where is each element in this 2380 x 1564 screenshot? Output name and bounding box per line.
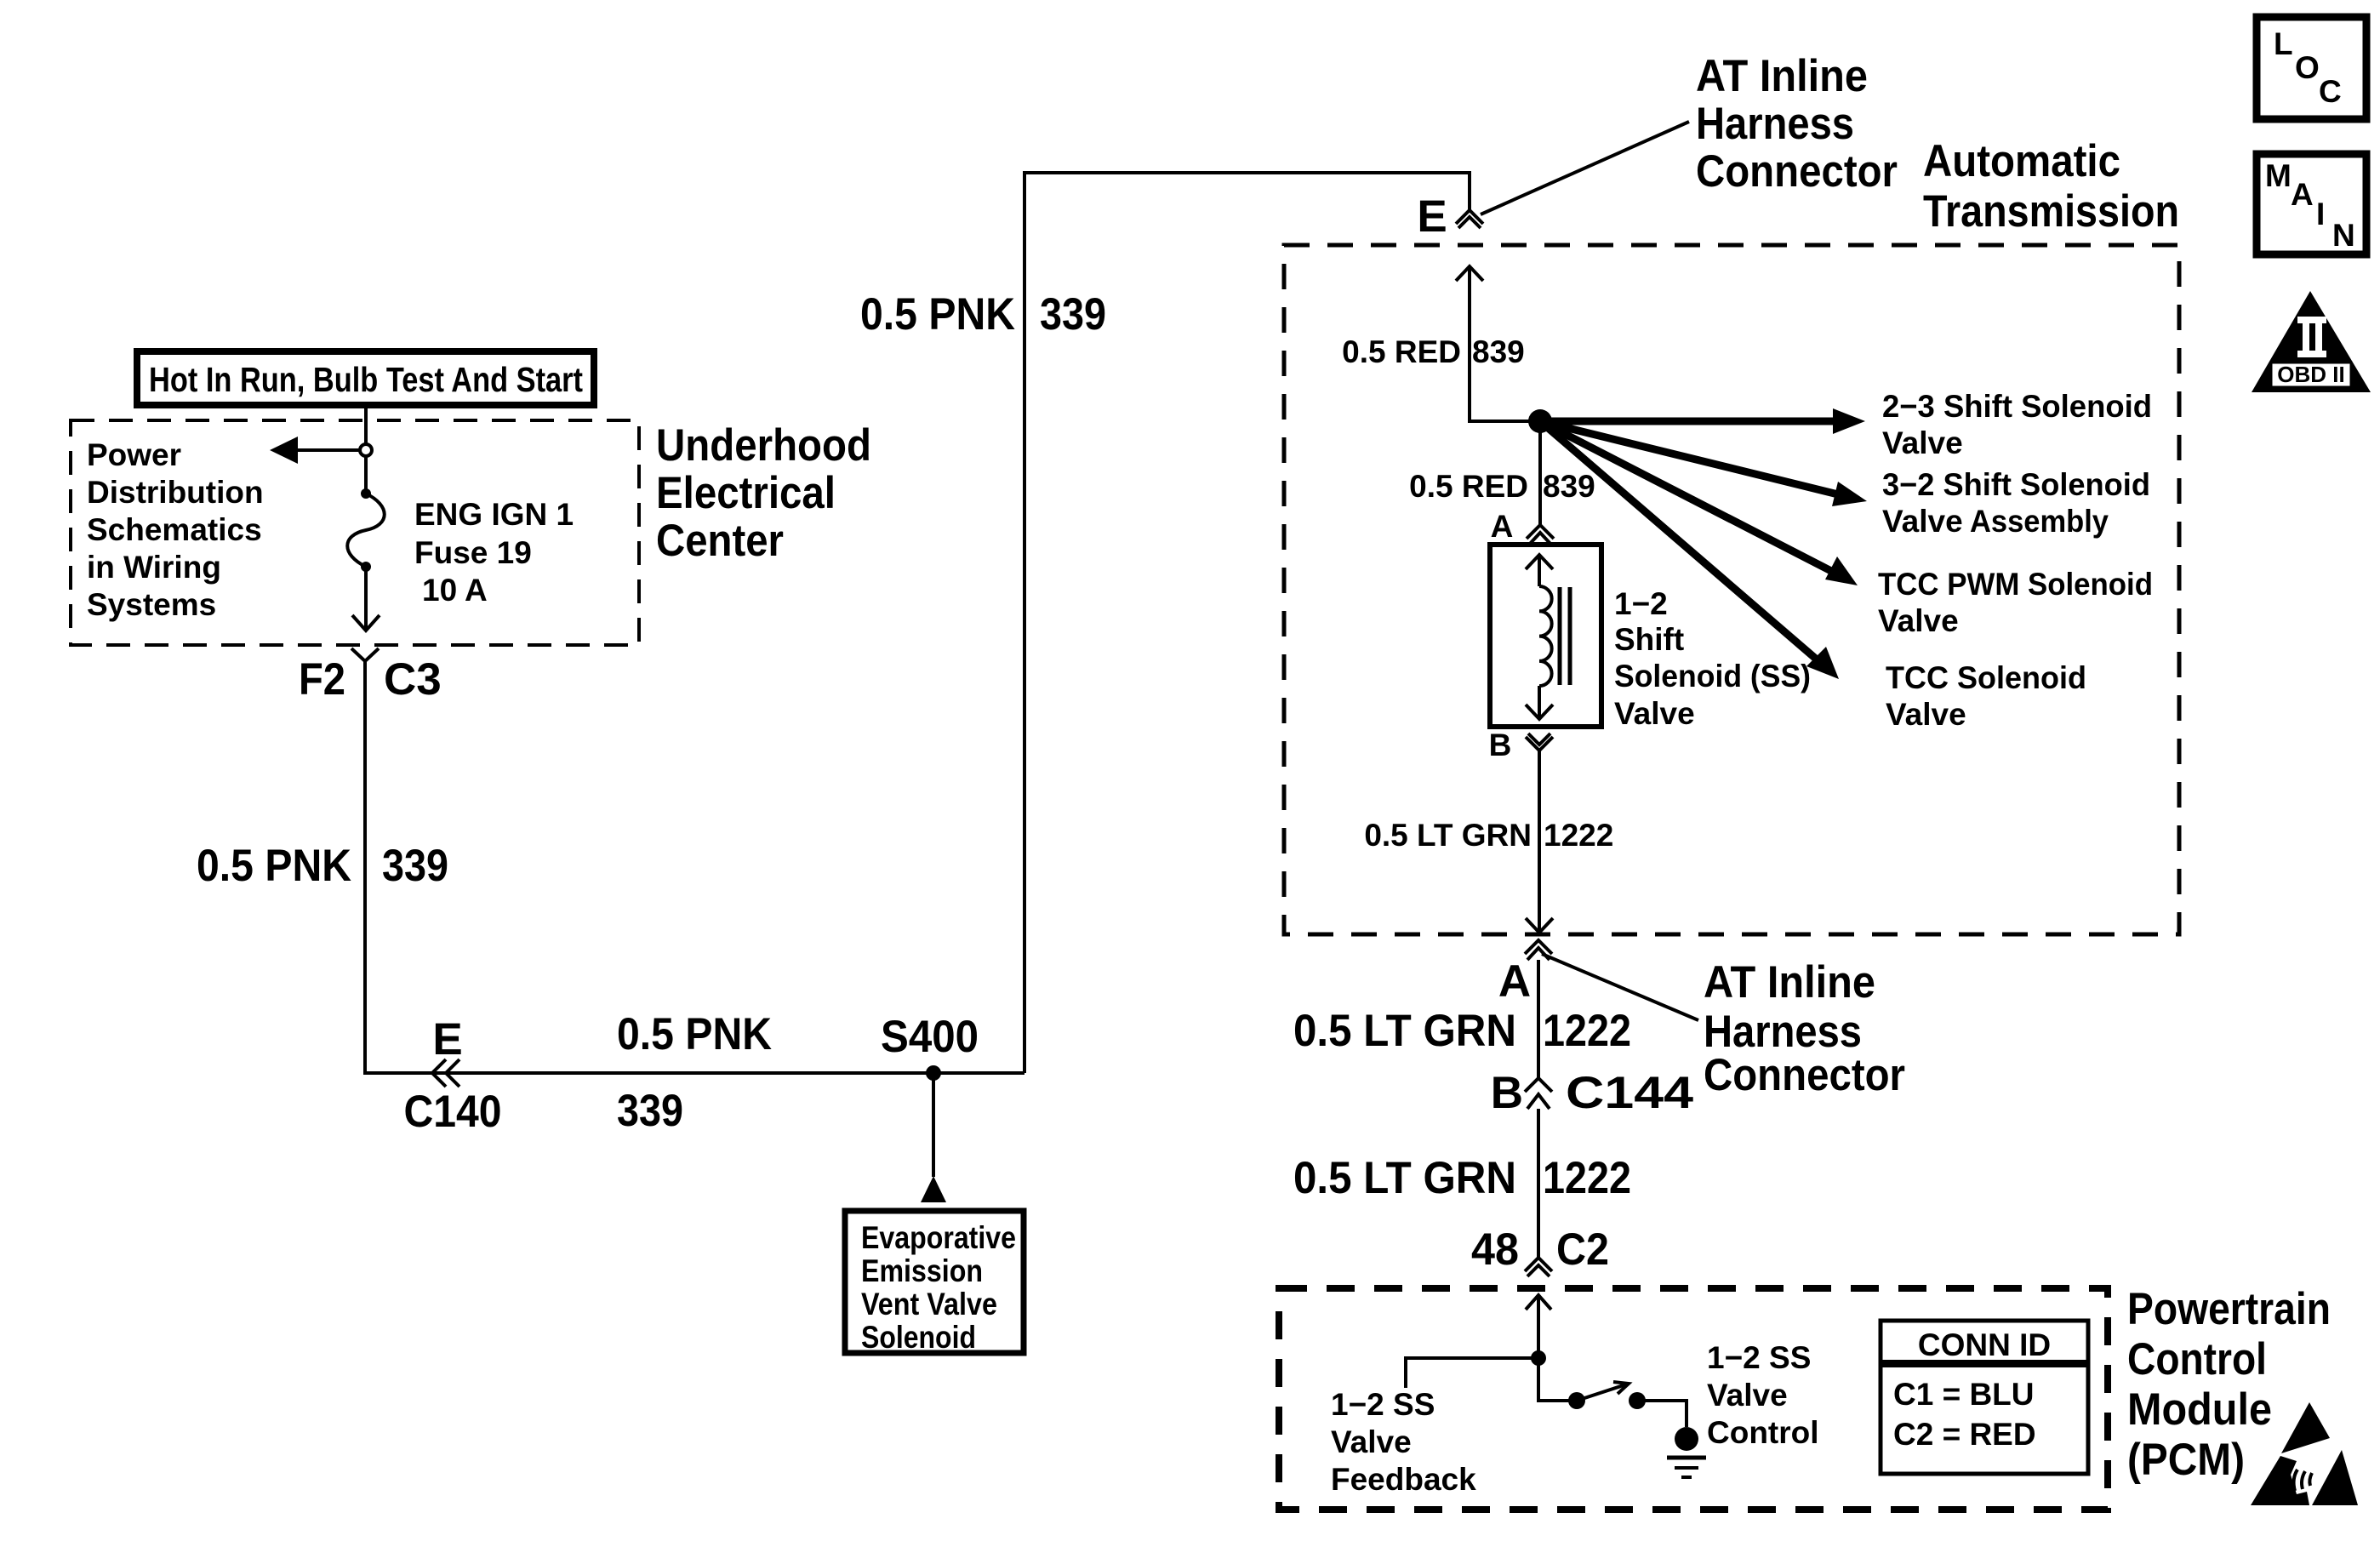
svg-text:3−2 Shift Solenoid: 3−2 Shift Solenoid [1882, 467, 2150, 502]
label 1-2 SS Valve Feedback [1331, 1387, 1476, 1497]
thick arrow to 3-2 shift solenoid valve assembly [1540, 421, 1867, 506]
svg-text:C: C [2319, 74, 2342, 109]
svg-text:Center: Center [656, 516, 784, 566]
svg-text:C144: C144 [1566, 1068, 1694, 1118]
svg-text:L: L [2274, 26, 2293, 61]
junction dot in transmission [1528, 409, 1552, 433]
svg-text:Harness: Harness [1696, 99, 1854, 149]
ESD sensitive symbol [2251, 1402, 2358, 1505]
svg-text:Valve: Valve [1882, 504, 1963, 539]
svg-text:Schematics: Schematics [87, 512, 262, 547]
svg-text:2−3 Shift Solenoid: 2−3 Shift Solenoid [1882, 389, 2152, 424]
svg-text:Feedback: Feedback [1331, 1462, 1476, 1497]
svg-text:Valve: Valve [1614, 696, 1695, 731]
svg-text:B: B [1489, 728, 1512, 762]
label Automatic Transmission [1923, 136, 2179, 237]
label 0.5 RED 839 (upper) [1342, 334, 1525, 369]
svg-text:Electrical: Electrical [656, 468, 836, 518]
svg-text:1−2 SS: 1−2 SS [1707, 1340, 1811, 1375]
svg-text:0.5 RED: 0.5 RED [1342, 334, 1461, 369]
wire A to B C144 [1537, 960, 1540, 1078]
label 1-2 SS Valve Control [1707, 1340, 1819, 1450]
svg-text:839: 839 [1543, 469, 1595, 504]
svg-text:0.5 PNK: 0.5 PNK [197, 841, 351, 891]
connector A at solenoid [1491, 509, 1554, 545]
svg-text:I: I [2316, 197, 2325, 231]
svg-text:Transmission: Transmission [1923, 186, 2179, 237]
feedback branch wire [1406, 1358, 1538, 1388]
svg-text:48: 48 [1471, 1224, 1519, 1275]
svg-text:Module: Module [2127, 1384, 2272, 1435]
label 2-3 Shift Solenoid Valve [1882, 389, 2152, 460]
power distribution note [87, 437, 264, 622]
1-2 shift solenoid box [1490, 545, 1601, 727]
label 0.5 PNK 339 (left vertical) [197, 841, 448, 891]
automatic transmission dashed box [1284, 245, 2179, 934]
svg-text:Connector: Connector [1704, 1050, 1905, 1100]
PCM junction dot [1531, 1350, 1546, 1366]
hot-in-run label box [137, 351, 594, 405]
svg-text:M: M [2265, 158, 2292, 193]
svg-text:10 A: 10 A [422, 573, 488, 608]
svg-text:C140: C140 [404, 1087, 502, 1137]
label 0.5 LT GRN 1222 (upper) [1293, 1006, 1631, 1056]
ground symbol [1667, 1427, 1706, 1477]
svg-text:0.5 PNK: 0.5 PNK [617, 1009, 772, 1059]
fuse label ENG IGN 1 Fuse 19 10 A [414, 497, 574, 608]
svg-text:Valve: Valve [1886, 697, 1966, 732]
label 0.5 PNK 339 (top vertical) [860, 289, 1106, 340]
label AT Inline Harness Connector (top) [1696, 51, 1898, 197]
svg-text:Valve: Valve [1878, 603, 1959, 638]
svg-text:Valve: Valve [1882, 425, 1963, 460]
label Powertrain Control Module (PCM) [2127, 1284, 2331, 1485]
arrow to power distribution [270, 437, 361, 464]
svg-text:C3: C3 [384, 654, 442, 705]
solenoid internal arrow down [1526, 686, 1553, 719]
svg-text:OBD II: OBD II [2277, 362, 2344, 387]
svg-text:Underhood: Underhood [656, 420, 871, 471]
svg-text:(PCM): (PCM) [2127, 1435, 2245, 1485]
switch arm with arrow [1577, 1382, 1629, 1401]
wire S400 down to evap solenoid [932, 1073, 935, 1177]
svg-text:1−2: 1−2 [1614, 586, 1668, 621]
label 0.5 PNK 339 (bottom horizontal) [617, 1009, 772, 1136]
wire B C144 to 48 C2 [1537, 1109, 1540, 1258]
wire from hot box into UEC [364, 405, 368, 446]
svg-text:Valve: Valve [1707, 1378, 1788, 1413]
svg-text:Assembly: Assembly [1970, 504, 2109, 539]
svg-text:0.5 LT GRN: 0.5 LT GRN [1293, 1153, 1516, 1203]
wire 0.5 RED 839 from E to junction [1470, 268, 1537, 421]
junction ring [360, 444, 372, 456]
svg-text:AT Inline: AT Inline [1696, 51, 1868, 101]
svg-text:Solenoid: Solenoid [861, 1320, 976, 1355]
connector 48 C2 at PCM [1471, 1224, 1609, 1276]
wire junction down to solenoid pin A [1538, 421, 1542, 524]
LOC legend box [2257, 17, 2366, 119]
svg-text:Powertrain: Powertrain [2127, 1284, 2331, 1334]
svg-text:Shift: Shift [1614, 622, 1684, 657]
callout line to AT inline harness connector (bottom) [1542, 954, 1698, 1020]
switch wire down from junction [1538, 1358, 1569, 1401]
svg-text:0.5 RED: 0.5 RED [1409, 469, 1528, 504]
powertrain control module dashed box [1279, 1288, 2108, 1510]
label 0.5 LT GRN 1222 (lower) [1293, 1153, 1631, 1203]
svg-text:Fuse 19: Fuse 19 [414, 535, 532, 570]
thick arrow to 2-3 shift solenoid valve [1540, 408, 1865, 434]
svg-text:Connector: Connector [1696, 146, 1898, 197]
svg-text:0.5 LT GRN: 0.5 LT GRN [1364, 818, 1532, 853]
label 3-2 Shift Solenoid Valve Assembly [1882, 467, 2150, 539]
svg-text:A: A [1491, 509, 1514, 544]
wire 0.5 PNK 339 up and over to transmission [1024, 173, 1470, 1073]
switch contact dot 2 [1629, 1392, 1646, 1409]
MAIN legend box [2257, 154, 2366, 254]
solenoid coil [1539, 586, 1552, 686]
down arrow at transmission exit [1526, 918, 1553, 933]
underhood electrical center label [656, 420, 871, 566]
connector B C144 [1491, 1068, 1694, 1118]
connector F2 C3 [299, 648, 442, 705]
svg-text:339: 339 [382, 841, 448, 891]
label TCC PWM Solenoid Valve [1878, 567, 2153, 638]
label 1-2 Shift Solenoid (SS) Valve [1614, 586, 1811, 731]
OBD II symbol [2252, 291, 2371, 392]
svg-text:TCC PWM Solenoid: TCC PWM Solenoid [1878, 567, 2153, 602]
svg-text:CONN ID: CONN ID [1918, 1327, 2051, 1362]
svg-text:Valve: Valve [1331, 1424, 1412, 1459]
thick arrow to TCC PWM solenoid valve [1540, 421, 1858, 585]
svg-text:C2: C2 [1556, 1224, 1609, 1275]
up arrow inside transmission box [1456, 266, 1483, 281]
solenoid core bars [1560, 587, 1570, 685]
svg-text:0.5 LT GRN: 0.5 LT GRN [1293, 1006, 1516, 1056]
down arrow at UEC exit [352, 615, 380, 631]
svg-text:1222: 1222 [1543, 1153, 1631, 1203]
switch contact dot 1 [1568, 1392, 1585, 1409]
evaporative emission vent valve solenoid box [845, 1211, 1024, 1355]
connector E C140 on horizontal wire [404, 1014, 502, 1137]
svg-text:1222: 1222 [1544, 818, 1613, 853]
label 0.5 LT GRN 1222 (inside transmission) [1364, 818, 1613, 853]
svg-text:0.5 PNK: 0.5 PNK [860, 289, 1015, 340]
svg-text:339: 339 [617, 1086, 683, 1136]
connector E at transmission [1417, 191, 1483, 242]
thick arrow to TCC solenoid valve [1540, 421, 1839, 679]
wire into PCM junction [1537, 1297, 1540, 1358]
label 0.5 RED 839 (lower) [1409, 469, 1595, 504]
svg-text:Control: Control [2127, 1334, 2267, 1384]
svg-text:1222: 1222 [1543, 1006, 1631, 1056]
svg-text:Hot In Run, Bulb Test And Star: Hot In Run, Bulb Test And Start [149, 360, 583, 399]
wire B down to transmission edge [1538, 751, 1541, 933]
wire fuse to arrow [364, 567, 368, 630]
svg-text:A: A [1498, 956, 1531, 1007]
svg-text:AT Inline: AT Inline [1704, 957, 1875, 1007]
svg-text:1−2 SS: 1−2 SS [1331, 1387, 1435, 1422]
svg-text:Power: Power [87, 437, 181, 472]
svg-text:B: B [1491, 1068, 1523, 1118]
CONN ID table [1881, 1321, 2088, 1474]
svg-text:TCC Solenoid: TCC Solenoid [1886, 660, 2086, 695]
svg-text:Systems: Systems [87, 587, 216, 622]
svg-text:ENG IGN 1: ENG IGN 1 [414, 497, 574, 532]
svg-text:A: A [2291, 177, 2314, 212]
svg-text:339: 339 [1040, 289, 1106, 340]
label AT Inline Harness Connector (bottom) [1704, 957, 1905, 1100]
svg-text:Control: Control [1707, 1415, 1819, 1450]
svg-text:839: 839 [1472, 334, 1525, 369]
connector B at solenoid [1489, 728, 1553, 762]
fuse ENG IGN 1 [347, 488, 385, 572]
svg-text:Vent Valve: Vent Valve [861, 1287, 997, 1321]
svg-text:N: N [2332, 218, 2355, 253]
up arrow inside PCM [1526, 1295, 1551, 1310]
svg-text:Distribution: Distribution [87, 475, 264, 510]
wire 0.5 PNK 339 down from F2 C3 [365, 661, 1024, 1073]
svg-text:E: E [1417, 191, 1447, 242]
wire to ground [1637, 1401, 1687, 1427]
svg-text:Evaporative: Evaporative [861, 1220, 1016, 1255]
svg-text:in Wiring: in Wiring [87, 550, 221, 585]
solenoid internal arrow up [1526, 555, 1553, 586]
callout line to AT inline harness connector (top) [1481, 122, 1689, 214]
label TCC Solenoid Valve [1886, 660, 2086, 732]
underhood electrical center dashed box [71, 420, 639, 645]
wire ring to fuse [364, 456, 368, 490]
svg-text:C1 = BLU: C1 = BLU [1893, 1377, 2035, 1412]
svg-text:F2: F2 [299, 654, 345, 705]
svg-text:S400: S400 [881, 1012, 979, 1062]
triangle terminal at evap solenoid [921, 1176, 946, 1202]
connector A AT inline harness [1498, 940, 1552, 1007]
splice S400 [881, 1012, 979, 1081]
svg-text:O: O [2295, 50, 2320, 85]
svg-text:Solenoid (SS): Solenoid (SS) [1614, 659, 1811, 694]
svg-text:C2 = RED: C2 = RED [1893, 1417, 2036, 1452]
svg-text:Automatic: Automatic [1923, 136, 2120, 186]
svg-text:Emission: Emission [861, 1253, 983, 1288]
svg-text:E: E [432, 1014, 462, 1065]
